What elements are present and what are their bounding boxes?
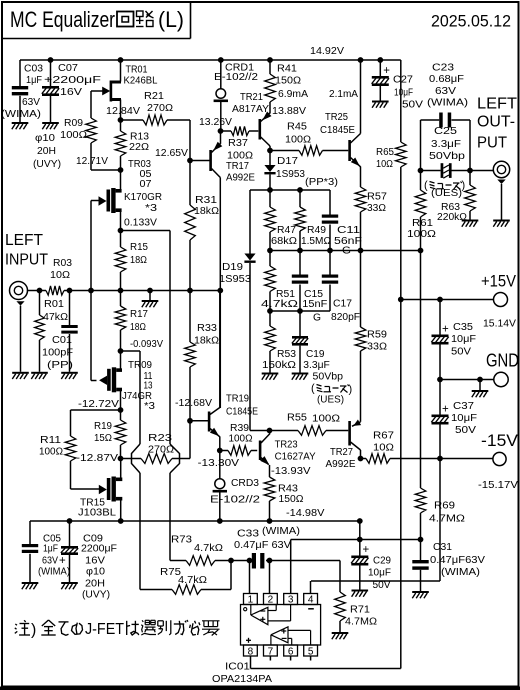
- ground GND rail: [472, 380, 489, 398]
- wire +15V rail: [401, 299, 494, 301]
- svg-text:1μF: 1μF: [26, 75, 42, 86]
- capacitor C03: [1, 60, 44, 122]
- svg-text:TR27: TR27: [330, 447, 353, 458]
- resistor R65: [376, 60, 406, 300]
- wire -15V feed y458: [361, 454, 493, 464]
- node rail TR15: [118, 518, 124, 524]
- node y250 C15: [297, 248, 303, 254]
- node rail C29: [357, 518, 363, 524]
- resistor R61: [407, 171, 436, 251]
- svg-text:2.1mA: 2.1mA: [329, 89, 358, 100]
- capacitor C15: [292, 251, 328, 324]
- wire GND rail: [440, 379, 494, 381]
- svg-text:R23: R23: [148, 433, 173, 444]
- svg-text:10Ω: 10Ω: [376, 159, 393, 170]
- svg-text:J-FET: J-FET: [85, 621, 124, 638]
- svg-text:33Ω: 33Ω: [367, 203, 386, 214]
- resistor R75: [140, 561, 231, 595]
- svg-text:10μF: 10μF: [394, 87, 413, 98]
- svg-text:R47: R47: [277, 225, 296, 236]
- resistor R37: [221, 126, 259, 161]
- resistor R23: [121, 421, 191, 464]
- svg-text:(UES): (UES): [317, 394, 344, 405]
- ground C31: [412, 591, 429, 598]
- svg-text:C35: C35: [453, 322, 474, 333]
- resistor R01: [35, 291, 68, 372]
- svg-text:TR09: TR09: [128, 360, 152, 371]
- resistor R49: [295, 190, 331, 251]
- svg-text:33Ω: 33Ω: [367, 341, 387, 352]
- svg-text:820pF: 820pF: [331, 312, 360, 323]
- svg-text:63V: 63V: [42, 555, 58, 566]
- resistor R33: [185, 290, 219, 421]
- note text J-FET selection: [15, 620, 220, 639]
- svg-text:φ10: φ10: [35, 133, 56, 144]
- svg-text:-15V: -15V: [481, 431, 519, 450]
- label (PP*3): [305, 177, 338, 188]
- svg-text:150Ω: 150Ω: [275, 75, 301, 86]
- svg-text:6: 6: [288, 646, 294, 657]
- ground C03: [12, 122, 29, 129]
- node R31-R33: [187, 288, 193, 294]
- svg-text:07: 07: [140, 179, 152, 190]
- svg-text:(PP*3): (PP*3): [305, 177, 338, 188]
- capacitor C17: [322, 251, 360, 323]
- svg-text:R45: R45: [287, 121, 308, 132]
- svg-text:R13: R13: [130, 131, 150, 142]
- svg-text:(WIMA): (WIMA): [1, 109, 41, 120]
- node mid ground: [147, 288, 153, 294]
- resistor R39: [220, 423, 257, 456]
- capacitor C01: [42, 291, 78, 372]
- svg-text:6.9mA: 6.9mA: [278, 89, 308, 100]
- svg-text:18Ω: 18Ω: [130, 322, 146, 333]
- node +15V C35: [437, 297, 443, 303]
- svg-text:(L): (L): [158, 7, 184, 32]
- resistor R41: [265, 60, 309, 102]
- svg-text:47kΩ: 47kΩ: [43, 312, 68, 323]
- svg-text:A992E: A992E: [326, 459, 356, 470]
- transistor TR01 K246BL: [91, 60, 158, 120]
- title text (L): [158, 7, 184, 32]
- ground C07: [42, 122, 59, 129]
- svg-text:10μF: 10μF: [451, 334, 476, 345]
- node y250 R61-R69: [418, 248, 424, 254]
- svg-text:R17: R17: [130, 309, 148, 320]
- capacitor C07: [33, 60, 101, 170]
- label -15V: [478, 431, 519, 491]
- transistor TR23 C1627AY: [259, 431, 316, 478]
- wire feedback bottom y311: [270, 310, 330, 312]
- svg-text:10μF: 10μF: [368, 567, 391, 578]
- node rail C09: [67, 518, 73, 524]
- transistor TR03 K170GR: [99, 159, 163, 231]
- svg-text:(WIMA): (WIMA): [441, 567, 480, 578]
- resistor R71: [335, 592, 377, 632]
- svg-text:LEFT: LEFT: [5, 232, 43, 249]
- svg-text:50Vbp: 50Vbp: [313, 372, 344, 383]
- svg-text:+15V: +15V: [481, 272, 517, 291]
- label -14.98V: [286, 508, 325, 519]
- node output C25 right: [467, 168, 473, 174]
- svg-text:R15: R15: [130, 242, 149, 253]
- node top rail TR25: [358, 57, 364, 63]
- svg-text:8: 8: [248, 646, 254, 657]
- node GND C35-C37: [437, 377, 443, 383]
- svg-text:18kΩ: 18kΩ: [194, 206, 219, 217]
- svg-text:4.7MΩ: 4.7MΩ: [429, 513, 465, 524]
- svg-text:R31: R31: [195, 195, 217, 206]
- label 12.84V: [106, 106, 140, 117]
- wire y230 to x170: [121, 231, 171, 445]
- label 12.65V: [155, 148, 188, 159]
- svg-text:C07: C07: [58, 63, 78, 74]
- resistor R59: [355, 251, 387, 422]
- transistor TR17 A992E: [190, 131, 255, 408]
- svg-text:100pF: 100pF: [42, 347, 73, 358]
- svg-text:+: +: [363, 544, 370, 556]
- svg-text:+: +: [59, 555, 66, 567]
- node input R15-R17: [118, 288, 124, 294]
- svg-text:100Ω: 100Ω: [312, 413, 340, 424]
- ground C09: [61, 582, 78, 589]
- svg-text:R69: R69: [434, 500, 455, 511]
- svg-text:GND: GND: [486, 351, 519, 371]
- node y250 R51: [267, 248, 273, 254]
- node top rail TR01: [118, 57, 124, 63]
- svg-text:R39: R39: [230, 423, 249, 434]
- svg-text:D19: D19: [222, 262, 243, 273]
- node TR17-TR19 collectors: [217, 288, 223, 294]
- ground C19: [292, 373, 309, 380]
- terminal -15V: [493, 452, 506, 465]
- label LEFT INPUT: [5, 232, 48, 269]
- svg-text:R41: R41: [277, 63, 297, 74]
- resistor R11: [39, 410, 99, 489]
- svg-text:TR01: TR01: [126, 64, 148, 75]
- transistor TR19 C1845E: [190, 290, 258, 451]
- svg-text:4.7kΩ: 4.7kΩ: [178, 575, 207, 586]
- svg-text:50V: 50V: [455, 425, 477, 436]
- transistor TR15 J103BL: [78, 459, 122, 522]
- svg-text:OUT-: OUT-: [477, 114, 515, 131]
- svg-text:14.92V: 14.92V: [310, 46, 344, 57]
- svg-text:(UVY): (UVY): [33, 159, 61, 170]
- label 14.92V: [310, 46, 344, 57]
- svg-text:13: 13: [144, 380, 153, 391]
- svg-text:K170GR: K170GR: [124, 192, 162, 203]
- svg-text:50Vbp: 50Vbp: [429, 151, 466, 162]
- svg-text:+: +: [442, 324, 449, 336]
- node y250 R57-R59: [358, 248, 364, 254]
- svg-text:4.7MΩ: 4.7MΩ: [345, 616, 377, 627]
- CRD CRD3 E-102: [210, 451, 260, 522]
- node C33 left: [247, 558, 253, 564]
- resistor R67 labels: [373, 430, 394, 453]
- svg-text:5: 5: [308, 646, 314, 657]
- svg-text:100Ω: 100Ω: [407, 229, 436, 240]
- label -13.30V: [198, 458, 240, 469]
- op-amp IC01 OPA2134PA: [241, 594, 321, 661]
- wire gate line x91: [91, 201, 100, 381]
- svg-text:R55: R55: [287, 412, 308, 423]
- svg-text:100Ω: 100Ω: [227, 150, 253, 161]
- wire C33 y560: [231, 560, 340, 562]
- ground C05: [22, 582, 39, 589]
- svg-text:16V: 16V: [60, 87, 83, 98]
- node y539 R69-C31: [418, 537, 424, 543]
- label -12.87V: [76, 453, 119, 464]
- wire input y290: [34, 290, 220, 292]
- resistor R13: [115, 120, 149, 170]
- svg-text:IC01: IC01: [225, 661, 250, 672]
- svg-text:13.88V: 13.88V: [272, 106, 306, 117]
- svg-text:TR19: TR19: [226, 393, 249, 404]
- svg-text:-12.68V: -12.68V: [175, 398, 212, 409]
- capacitor C25: [429, 126, 466, 199]
- node y458 C37: [437, 456, 443, 462]
- svg-text:270Ω: 270Ω: [147, 103, 173, 114]
- capacitor C37: [431, 380, 477, 459]
- svg-text:-15.17V: -15.17V: [478, 479, 518, 491]
- date 2025.05.12: [431, 12, 511, 31]
- title box: [2, 2, 191, 39]
- svg-text:D17: D17: [277, 156, 298, 167]
- wire pin4 riser: [310, 581, 312, 594]
- connector LEFT OUTPUT jack: [493, 161, 509, 219]
- svg-text:C25: C25: [434, 126, 458, 137]
- label GND: [486, 351, 519, 371]
- svg-text:15.14V: 15.14V: [483, 317, 516, 329]
- svg-text:12.84V: 12.84V: [106, 106, 140, 117]
- resistor R51: [261, 251, 298, 312]
- svg-text:C03: C03: [24, 63, 44, 74]
- svg-text:R37: R37: [228, 138, 248, 149]
- title kanji 回: [117, 12, 134, 27]
- capacitor C35: [431, 300, 476, 380]
- svg-text:1S953: 1S953: [219, 274, 252, 285]
- ground input jack: [12, 372, 29, 379]
- svg-text:20H: 20H: [85, 578, 105, 589]
- wire top +rail 14.92V: [20, 59, 401, 61]
- svg-text:C1845E: C1845E: [226, 406, 258, 417]
- svg-text:10Ω: 10Ω: [373, 442, 394, 453]
- node y539 C29: [357, 537, 363, 543]
- svg-text:C1845E: C1845E: [320, 125, 355, 136]
- node rail R43: [267, 518, 273, 524]
- node top rail R41: [267, 57, 273, 63]
- title text MC Equalizer: [10, 7, 115, 32]
- svg-text:φ10: φ10: [86, 566, 106, 577]
- node top rail CRD1: [218, 57, 224, 63]
- svg-text:R43: R43: [278, 483, 299, 494]
- resistor R31: [185, 195, 219, 290]
- resistor R53: [262, 311, 297, 373]
- node y250 C17: [327, 248, 333, 254]
- svg-text:C23: C23: [432, 62, 455, 73]
- resistor R57: [355, 187, 387, 251]
- svg-text:J103BL: J103BL: [78, 507, 117, 518]
- node GND ground stub: [477, 377, 483, 383]
- label IC01: [212, 661, 273, 685]
- svg-text:C33: C33: [237, 528, 260, 539]
- svg-text:3.3μF: 3.3μF: [303, 360, 330, 371]
- svg-text:R03: R03: [53, 258, 73, 269]
- svg-text:): ): [462, 180, 466, 192]
- svg-text:): ): [349, 384, 353, 396]
- node 12.84V: [118, 117, 124, 123]
- svg-text:2025.05.12: 2025.05.12: [431, 12, 511, 31]
- svg-text:R65: R65: [376, 147, 395, 158]
- svg-text:+2200μF: +2200μF: [44, 75, 101, 86]
- CRD CRD1 E-102: [214, 60, 258, 131]
- svg-text:0.47μF63V: 0.47μF63V: [430, 555, 486, 566]
- diode D17 1S953: [264, 151, 305, 191]
- label katakana muse C25: [424, 180, 465, 192]
- wire feedback mid y250: [270, 250, 421, 252]
- svg-text:(WIMA): (WIMA): [38, 566, 70, 577]
- svg-text:TR21: TR21: [240, 92, 263, 103]
- svg-text:A817AY: A817AY: [232, 104, 269, 115]
- svg-text:18Ω: 18Ω: [130, 255, 147, 266]
- node C33 right: [267, 558, 273, 564]
- svg-text:G: G: [313, 312, 321, 323]
- wire x440 down to y581: [311, 459, 440, 582]
- svg-text:+: +: [383, 65, 390, 77]
- svg-text:16V: 16V: [85, 555, 106, 566]
- svg-text:E-102//2: E-102//2: [210, 494, 260, 505]
- svg-text:*3: *3: [145, 203, 158, 214]
- svg-text:CRD3: CRD3: [231, 478, 260, 489]
- label +15V: [481, 272, 517, 330]
- ground output jack: [493, 220, 510, 227]
- node input gate line: [88, 288, 94, 294]
- capacitor C09: [61, 521, 117, 600]
- svg-text:270Ω: 270Ω: [148, 444, 174, 455]
- wire V+ pin8 to +15 line: [251, 300, 401, 669]
- svg-text:0.133V: 0.133V: [124, 217, 157, 228]
- svg-text:R49: R49: [307, 225, 326, 236]
- node 12.71V: [118, 167, 124, 173]
- transistor TR25 C1845E: [320, 60, 361, 187]
- resistor R21: [121, 91, 191, 125]
- label -13.93V: [271, 466, 311, 477]
- wire feedback top y190: [250, 189, 330, 191]
- title kanji 路: [136, 11, 154, 27]
- node +15V R65: [398, 297, 404, 303]
- node output C25 left: [418, 168, 424, 174]
- wire feedback y539: [291, 540, 421, 594]
- node y311 R53: [267, 308, 273, 314]
- svg-text:C19: C19: [306, 349, 325, 360]
- svg-text:LEFT: LEFT: [477, 96, 517, 113]
- label -12.72V: [78, 399, 120, 410]
- svg-text:(: (: [311, 383, 315, 395]
- wire TR23 collector y430: [250, 430, 270, 432]
- wire R71 drop x340: [339, 561, 341, 593]
- node input R01: [37, 288, 43, 294]
- capacitor C23: [421, 62, 471, 170]
- svg-text:100Ω: 100Ω: [229, 433, 253, 444]
- svg-text:1S953: 1S953: [276, 169, 306, 180]
- svg-text:*3: *3: [144, 401, 156, 412]
- node rail CRD3: [217, 518, 223, 524]
- svg-text:R21: R21: [144, 91, 164, 102]
- svg-text:C1627AY: C1627AY: [275, 451, 316, 462]
- svg-text:18kΩ: 18kΩ: [194, 335, 219, 346]
- svg-text:0.68μF: 0.68μF: [429, 74, 464, 85]
- svg-text:100Ω: 100Ω: [39, 446, 63, 457]
- node -12.72V: [118, 407, 124, 413]
- svg-text:13.26V: 13.26V: [199, 117, 232, 128]
- node top rail C27: [377, 57, 383, 63]
- capacitor C05: [22, 521, 70, 582]
- wire bottom rail y521: [30, 520, 360, 522]
- svg-text:12.65V: 12.65V: [155, 148, 188, 159]
- label 0.133V: [124, 217, 157, 228]
- node top rail C07: [48, 57, 54, 63]
- svg-text:C01: C01: [52, 335, 72, 346]
- connector LEFT INPUT jack: [10, 282, 35, 372]
- resistor R15: [115, 231, 148, 291]
- svg-text:100Ω: 100Ω: [285, 134, 311, 145]
- svg-text:4.7kΩ: 4.7kΩ: [261, 299, 298, 310]
- ground C27: [372, 101, 389, 108]
- svg-text:R11: R11: [40, 435, 61, 446]
- svg-text:22Ω: 22Ω: [129, 142, 149, 153]
- svg-text:C17: C17: [333, 298, 352, 309]
- transistor TR09 J74GR: [99, 351, 156, 412]
- svg-text:1μF: 1μF: [43, 543, 58, 554]
- svg-text:10Ω: 10Ω: [50, 270, 70, 281]
- svg-text:-12.72V: -12.72V: [78, 399, 120, 410]
- node -0.093V: [118, 348, 124, 354]
- svg-text:E-102//2: E-102//2: [214, 72, 258, 83]
- label LEFT OUT- PUT: [477, 96, 517, 152]
- svg-text:+: +: [442, 404, 449, 416]
- svg-text:63V: 63V: [435, 86, 457, 97]
- node -12.87V: [118, 456, 124, 462]
- svg-text:-14.98V: -14.98V: [286, 508, 325, 519]
- svg-text:R61: R61: [412, 218, 433, 229]
- ground R71: [332, 632, 349, 639]
- svg-text:TR23: TR23: [275, 439, 299, 450]
- svg-text:7: 7: [268, 646, 274, 657]
- svg-text:R33: R33: [197, 323, 218, 334]
- capacitor C27: [372, 60, 424, 110]
- node TR19 base -12.68V: [187, 418, 193, 424]
- node 0.133V: [118, 228, 124, 234]
- resistor R55: [270, 412, 349, 435]
- wire x170 bulge around R23: [170, 444, 180, 561]
- resistor R19: [94, 410, 126, 459]
- ground R01: [31, 372, 48, 379]
- ground R53: [262, 373, 279, 380]
- svg-text:C27: C27: [393, 74, 413, 85]
- svg-text:K246BL: K246BL: [124, 75, 159, 86]
- svg-text:20H: 20H: [37, 146, 56, 157]
- wire y351 to x140: [121, 351, 141, 444]
- svg-text:C31: C31: [433, 542, 452, 553]
- svg-text:50V: 50V: [451, 346, 472, 357]
- capacitor C33: [234, 526, 300, 569]
- svg-text:(WIMA): (WIMA): [262, 526, 300, 537]
- resistor R63: [437, 171, 475, 223]
- svg-text:15nF: 15nF: [302, 299, 327, 310]
- svg-text:R57: R57: [367, 191, 387, 202]
- svg-text:10μF: 10μF: [451, 413, 477, 424]
- svg-text:150kΩ: 150kΩ: [262, 360, 296, 371]
